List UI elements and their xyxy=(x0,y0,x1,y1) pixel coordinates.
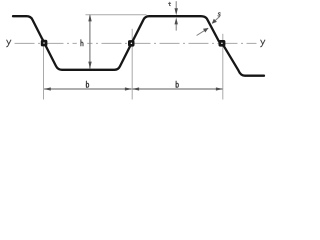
label h xyxy=(81,40,83,46)
b arrow far right xyxy=(216,87,223,90)
centerline y-y (dash-dot neutral axis) xyxy=(15,42,257,44)
b arrow far left xyxy=(44,87,51,90)
b arrow mid pointing right xyxy=(125,87,132,90)
dimension h line xyxy=(89,15,91,68)
dimension t upper leader xyxy=(175,1,177,9)
interlock clutch right xyxy=(219,40,226,47)
interlock clutch left xyxy=(41,40,48,47)
dimension t lower leader xyxy=(175,23,177,30)
label b right xyxy=(176,81,178,87)
extension line h top xyxy=(86,14,147,16)
dimension h arrow up xyxy=(88,14,91,21)
dimension b line right span xyxy=(132,88,222,90)
halo behind h label xyxy=(77,38,87,49)
extension line b left xyxy=(43,39,45,100)
dimension t arrow up xyxy=(175,18,178,25)
dimension s lower leader xyxy=(197,28,209,35)
interlock clutch middle xyxy=(128,40,135,47)
dimension s arrow upper xyxy=(212,19,217,24)
extension line b middle xyxy=(131,29,133,100)
label y left xyxy=(7,40,11,47)
label y right xyxy=(261,40,265,47)
dimension s upper leader xyxy=(212,16,220,23)
dimension s arrow lower xyxy=(203,28,208,33)
extension line b right xyxy=(222,34,224,100)
b arrow mid pointing left xyxy=(132,87,139,90)
label b left xyxy=(86,81,88,87)
dimension t arrow down xyxy=(175,8,178,15)
label s xyxy=(218,13,221,16)
label t xyxy=(168,2,171,6)
sheet pile profile outline xyxy=(13,16,264,75)
dimension b line left span xyxy=(44,88,132,90)
dimension h arrow down xyxy=(88,62,91,69)
